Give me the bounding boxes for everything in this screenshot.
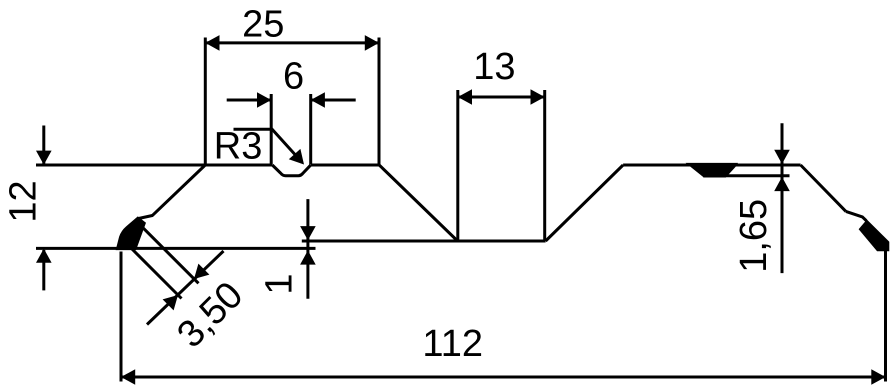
dimension 112 arrowheads xyxy=(121,369,886,385)
notch groove in top flat xyxy=(272,165,310,176)
dimension 25 extension lines xyxy=(204,38,207,165)
svg-text:25: 25 xyxy=(242,4,284,46)
valley floor line xyxy=(302,240,546,243)
dimension 6 extension lines xyxy=(270,94,273,165)
dimension 3,50 extension lines (45 deg) xyxy=(129,226,224,324)
svg-text:3,50: 3,50 xyxy=(169,274,251,356)
right hem fold (filled) xyxy=(859,220,889,251)
svg-text:R3: R3 xyxy=(214,126,263,168)
svg-text:6: 6 xyxy=(283,56,304,98)
overlap wedge (filled) xyxy=(687,163,737,177)
right trapezoid left slope xyxy=(546,165,624,241)
dimension 3,50 arrowheads xyxy=(163,264,210,311)
overlap lower sheet line 1.65 below top xyxy=(703,174,790,177)
dimension 1,65 line xyxy=(781,123,784,273)
svg-text:1,65: 1,65 xyxy=(733,199,775,273)
dimension 112 extension lines xyxy=(120,252,123,382)
left trapezoid right slope xyxy=(379,165,457,241)
dimension 112 line xyxy=(121,245,886,382)
bottom base line xyxy=(36,247,316,250)
profile top-left surface line with left extension xyxy=(36,164,272,167)
profile top flat right of notch xyxy=(311,164,380,167)
right jog segment xyxy=(846,211,866,220)
dimension 25 line xyxy=(205,38,379,166)
svg-text:13: 13 xyxy=(473,46,515,88)
dimension 1 arrowheads xyxy=(300,226,316,265)
dimension 12 arrowheads xyxy=(36,151,52,263)
dimension 12 line xyxy=(42,126,45,291)
left trapezoid left slope xyxy=(152,165,205,216)
dimension 6 arrowheads xyxy=(257,92,325,108)
radius R3 leader line xyxy=(234,129,303,162)
dimension 1 line xyxy=(306,199,309,299)
dimension 13 line xyxy=(458,90,545,240)
right trapezoid right slope xyxy=(801,165,846,211)
svg-text:1: 1 xyxy=(259,274,301,295)
right trapezoid top flat xyxy=(623,164,801,167)
dimension 25 arrowheads xyxy=(205,35,379,51)
dimension 6 line xyxy=(227,94,356,165)
left hem fold (filled) xyxy=(116,217,145,250)
svg-text:112: 112 xyxy=(422,323,483,365)
svg-text:12: 12 xyxy=(2,180,44,222)
left jog segment xyxy=(138,215,153,218)
dimension 13 arrowheads xyxy=(458,89,545,105)
dimension 13 extension lines xyxy=(456,90,459,240)
radius R3 arrowhead xyxy=(289,149,304,165)
dimension 3,50 line xyxy=(147,251,224,325)
dimension 1,65 arrowheads xyxy=(774,150,790,191)
